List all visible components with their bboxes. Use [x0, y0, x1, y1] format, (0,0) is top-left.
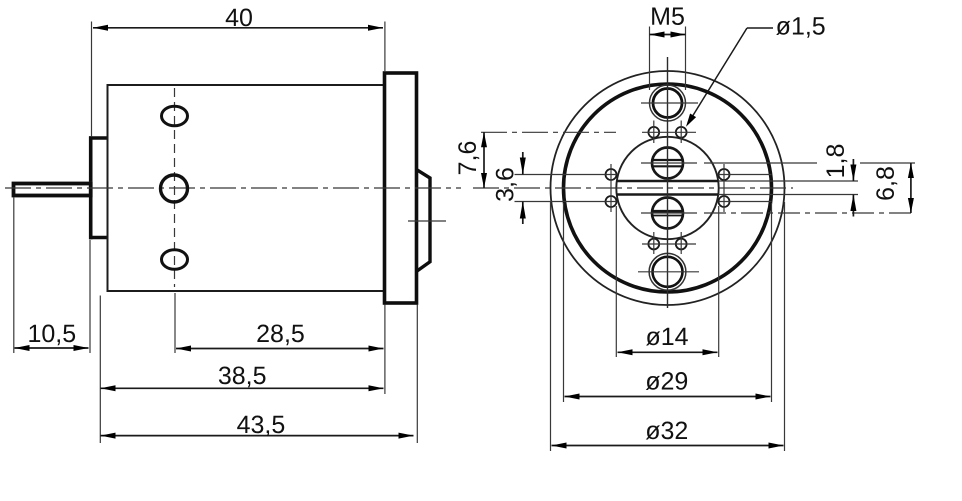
screw rows (6,8 references) [641, 162, 697, 164]
vertical centerline front view [667, 57, 669, 308]
svg-text:ø29: ø29 [645, 367, 688, 395]
small holes dia 1,5 top pair [648, 127, 659, 138]
dimension 10,5 [14, 198, 90, 354]
rear end cap (side view) [89, 136, 108, 239]
band extension lines right [718, 180, 858, 182]
dimension 28,5 [175, 293, 385, 394]
dimension 38,5 [100, 296, 383, 444]
body hole top (ellipse) [162, 106, 188, 126]
front flange (side view) [385, 73, 417, 303]
centermark row bottom dia1,5 pair [642, 243, 696, 245]
svg-text:6,8: 6,8 [872, 166, 900, 201]
motor shaft (side view) [14, 184, 91, 196]
dimension 7,6 [454, 132, 487, 188]
body hole middle (circle) [161, 175, 188, 202]
slotted screw lower [652, 198, 683, 229]
outer circle dia 32 [551, 71, 785, 305]
centermark bottom hole [638, 271, 699, 273]
svg-text:38,5: 38,5 [218, 362, 267, 390]
side circle vertical marks [610, 164, 612, 212]
svg-text:3,6: 3,6 [492, 167, 520, 202]
side small circles right pair [719, 169, 730, 180]
small holes dia 1,5 bottom pair [648, 239, 659, 250]
dimension 1,8 [822, 144, 856, 217]
dimension 40 [92, 4, 385, 136]
hole bottom [653, 257, 683, 287]
vertical centerline through body holes [174, 88, 176, 287]
leader dia 1,5 [686, 12, 826, 126]
motor body (side view) [108, 85, 386, 291]
flange boss (side view) [417, 170, 431, 272]
centermark row top dia1,5 pair [642, 131, 696, 133]
dimension dia 14 [616, 206, 718, 357]
svg-text:43,5: 43,5 [237, 411, 286, 439]
centermark M5 hole [641, 102, 698, 104]
dimension dia 29 [564, 203, 772, 402]
dimension 6,8 [872, 163, 914, 213]
dimension 3,6 [492, 152, 526, 224]
svg-text:M5: M5 [650, 3, 685, 31]
side small circles left pair [606, 169, 617, 180]
boss centerline [408, 220, 446, 222]
dimension dia 32 [551, 202, 785, 451]
horizontal centerline front view [473, 187, 793, 189]
slotted screw upper [652, 148, 683, 179]
center band lines [617, 181, 718, 195]
dashed row through dia1,5 holes (7,6 reference) [481, 131, 616, 133]
svg-text:ø1,5: ø1,5 [776, 12, 826, 40]
circle dia 29 (thick) [564, 84, 772, 292]
svg-text:28,5: 28,5 [256, 320, 305, 348]
main horizontal centerline (side view) [5, 187, 461, 189]
side circle rows [515, 174, 617, 176]
svg-text:40: 40 [225, 4, 253, 32]
svg-text:10,5: 10,5 [27, 320, 76, 348]
svg-text:7,6: 7,6 [454, 141, 482, 176]
body hole bottom (ellipse) [162, 250, 188, 270]
dimension 43,5 [101, 305, 418, 444]
M5 threaded hole top [653, 89, 682, 118]
svg-text:ø14: ø14 [645, 323, 688, 351]
svg-text:ø32: ø32 [645, 417, 688, 445]
svg-text:1,8: 1,8 [822, 144, 850, 179]
circle dia 14 [616, 137, 718, 239]
dimension M5 [650, 3, 686, 90]
